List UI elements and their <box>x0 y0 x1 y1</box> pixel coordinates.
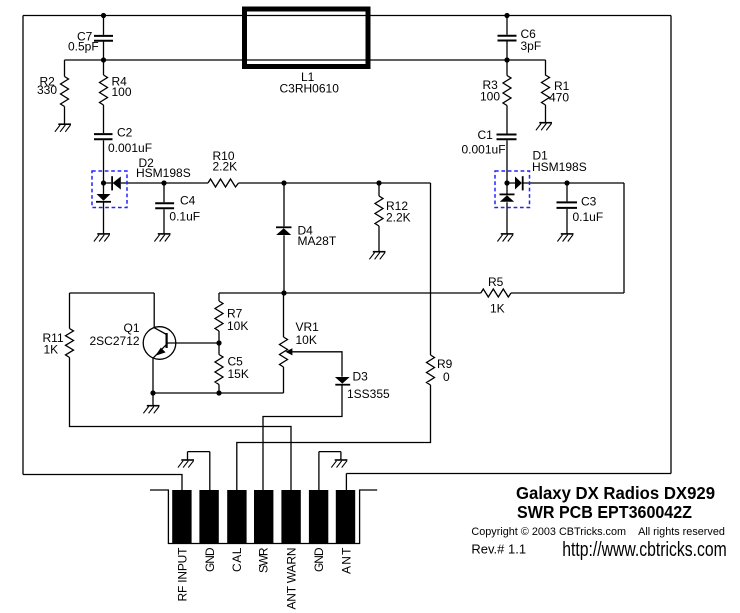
diode D4 <box>276 228 291 235</box>
svg-text:1K: 1K <box>490 302 505 316</box>
svg-text:10K: 10K <box>296 333 317 347</box>
svg-text:15K: 15K <box>228 367 249 381</box>
wire R1 drop <box>545 60 547 122</box>
wire R3 to C1 chain <box>506 60 508 183</box>
capacitor C6 <box>498 36 517 41</box>
svg-text:10K: 10K <box>227 319 248 333</box>
svg-text:2.2K: 2.2K <box>213 160 238 174</box>
svg-text:0.001uF: 0.001uF <box>108 141 152 155</box>
capacitor C2 <box>94 134 113 139</box>
svg-text:ANT WARN: ANT WARN <box>284 548 298 610</box>
wire Q1 collector <box>153 293 155 328</box>
resistor R3 <box>503 76 511 106</box>
diode D2 vertical element <box>97 194 111 201</box>
wire D1 output row y=183 right <box>507 183 624 293</box>
svg-text:330: 330 <box>37 83 57 97</box>
wire C7 branch <box>103 16 105 61</box>
resistor R11 <box>66 329 74 358</box>
svg-text:HSM198S: HSM198S <box>532 160 587 174</box>
ground (GND pin2) <box>181 459 194 461</box>
diode D2 horizontal element <box>113 177 121 190</box>
svg-text:CAL: CAL <box>230 547 244 572</box>
node M (Q1 emitter / ground bus) <box>150 390 155 395</box>
svg-text:HSM198S: HSM198S <box>136 166 191 180</box>
capacitor C4 <box>155 203 174 208</box>
svg-text:ANT: ANT <box>340 547 354 574</box>
inductor L1 <box>245 9 369 67</box>
diode D1 horizontal element <box>515 177 522 190</box>
svg-text:100: 100 <box>112 85 132 99</box>
node N (C5 bottom) <box>216 390 221 395</box>
ground (R2) <box>58 123 71 125</box>
wire D2 output row y=183 <box>104 182 431 184</box>
svg-text:0.1uF: 0.1uF <box>573 210 604 224</box>
node A (top RF / C7) <box>101 13 106 18</box>
wire left border (RF input leg) <box>22 16 24 475</box>
wire GND pin2 <box>188 452 210 490</box>
wire Q1 base <box>167 342 219 344</box>
wire C6 branch <box>506 16 508 61</box>
wire bottom-left to RF INPUT pin <box>23 475 182 491</box>
wire C3 leg <box>566 183 568 234</box>
ground (R1) <box>539 122 552 124</box>
potentiometer VR1 wiper arrow <box>285 348 292 355</box>
svg-text:C1: C1 <box>478 128 494 142</box>
wire bottom-right to ANT pin <box>346 474 671 491</box>
ground (D2) <box>97 233 110 235</box>
wire right border (ANT leg) <box>670 16 672 474</box>
svg-text:D3: D3 <box>353 370 369 384</box>
resistor R1 <box>542 75 550 105</box>
svg-text:C3: C3 <box>581 195 597 209</box>
node E (D2 junction) <box>101 180 106 185</box>
diode D1 vertical element <box>500 195 514 202</box>
capacitor C3 <box>557 202 578 208</box>
resistor C5 (15K) <box>215 355 223 385</box>
svg-text:C3RH0610: C3RH0610 <box>280 82 340 96</box>
potentiometer VR1 <box>280 337 288 367</box>
connector outline <box>150 490 377 544</box>
svg-text:SWR: SWR <box>256 547 270 573</box>
wire top RF line <box>23 15 671 17</box>
svg-text:MA28T: MA28T <box>298 234 337 248</box>
resistor R12 <box>375 196 383 226</box>
wire C4 leg <box>163 183 165 234</box>
wire R11 leg and ANT WARN run <box>70 293 292 490</box>
ground (Q1 emitter) <box>147 405 160 407</box>
svg-text:R9: R9 <box>437 357 453 371</box>
node F (C4 junction) <box>161 180 166 185</box>
node K (D4 bottom / VR1 top) <box>281 290 286 295</box>
svg-text:0.5pF: 0.5pF <box>68 40 99 54</box>
wire D2 vertical leg to ground <box>103 183 105 234</box>
wire D3 to SWR pin <box>263 385 342 490</box>
wire R4 to C2 chain <box>103 60 105 183</box>
svg-text:Q1: Q1 <box>124 321 140 335</box>
svg-text:0: 0 <box>443 370 450 384</box>
svg-text:3pF: 3pF <box>521 39 542 53</box>
node H (R12 top) <box>376 180 381 185</box>
node J (C3 junction) <box>564 180 569 185</box>
ground (C4) <box>158 233 171 235</box>
wire Q1 emitter ground stem <box>152 393 154 405</box>
wire D1 vertical leg to ground <box>506 183 508 234</box>
ground (R12) <box>373 251 386 253</box>
svg-text:GND: GND <box>312 547 326 572</box>
resistor R2 <box>61 77 69 107</box>
node G (D4 top) <box>281 180 286 185</box>
svg-text:470: 470 <box>549 91 569 105</box>
wire D4 leg <box>283 183 285 293</box>
transistor Q1 <box>143 327 176 360</box>
svg-text:GND: GND <box>203 547 217 572</box>
capacitor C1 <box>497 135 517 140</box>
svg-text:100: 100 <box>480 90 500 104</box>
svg-text:C2: C2 <box>117 126 133 140</box>
wire R2 drop <box>64 60 66 124</box>
svg-text:C4: C4 <box>180 194 196 208</box>
wire R5 row y=293 <box>219 292 624 294</box>
svg-text:1SS355: 1SS355 <box>347 387 390 401</box>
diode pack D1 dashed outline <box>495 171 530 208</box>
svg-text:VR1: VR1 <box>296 320 320 334</box>
svg-text:Copyright © 2003 CBTricks.com: Copyright © 2003 CBTricks.com All rights… <box>471 526 725 538</box>
ground (D1) <box>501 233 514 235</box>
svg-text:Rev.# 1.1: Rev.# 1.1 <box>471 542 526 557</box>
connector pin 6 GND <box>309 490 328 544</box>
wire ground bus y=393 <box>153 392 284 394</box>
svg-text:1K: 1K <box>44 343 59 357</box>
wire R9 long leg and CAL run <box>237 183 431 490</box>
svg-text:0.1uF: 0.1uF <box>169 209 200 223</box>
node I (D1 junction) <box>504 180 509 185</box>
svg-text:0.001uF: 0.001uF <box>462 142 506 156</box>
svg-text:R5: R5 <box>488 275 504 289</box>
connector pin 7 ANT <box>336 490 355 544</box>
node B (sense line / C7-R4) <box>101 57 106 62</box>
resistor R4 <box>100 75 108 105</box>
wire VR1 wiper to D3 <box>292 352 342 377</box>
wire R12 leg to ground <box>378 183 380 251</box>
wire R7 C5 chain <box>218 293 220 393</box>
ground (GND pin6) <box>335 459 348 461</box>
wire y=293 left segment R11 to Q1 <box>70 292 155 294</box>
capacitor C7 <box>94 36 113 41</box>
node L (Q1 base / R7-C5) <box>216 340 221 345</box>
node C (top RF / C6) <box>504 13 509 18</box>
connector pin 3 CAL <box>227 490 246 544</box>
ground (C3) <box>561 233 574 235</box>
connector pin 1 RF INPUT <box>172 490 191 544</box>
connector pin 5 ANT WARN <box>281 490 300 544</box>
svg-text:2.2K: 2.2K <box>386 211 411 225</box>
diode pack D2 dashed outline <box>92 171 127 208</box>
node D (sense line / C6-R3) <box>504 57 509 62</box>
svg-text:http://www.cbtricks.com: http://www.cbtricks.com <box>562 539 727 561</box>
svg-text:2SC2712: 2SC2712 <box>90 334 140 348</box>
svg-text:SWR PCB EPT360042Z: SWR PCB EPT360042Z <box>517 502 692 522</box>
diode D3 <box>335 377 350 384</box>
wire Q1 emitter <box>152 358 154 393</box>
wire sense line y=60 <box>65 59 546 61</box>
wire GND pin6 <box>319 452 341 490</box>
connector pin 2 GND <box>199 490 218 544</box>
svg-text:RF INPUT: RF INPUT <box>175 547 189 602</box>
svg-text:Galaxy DX Radios DX929: Galaxy DX Radios DX929 <box>516 483 715 503</box>
resistor R9 <box>427 355 435 385</box>
resistor R5 <box>481 289 511 297</box>
wire VR1 chain <box>283 293 285 393</box>
connector pin 4 SWR <box>254 490 273 544</box>
resistor R10 <box>208 179 239 187</box>
resistor R7 <box>215 301 223 331</box>
